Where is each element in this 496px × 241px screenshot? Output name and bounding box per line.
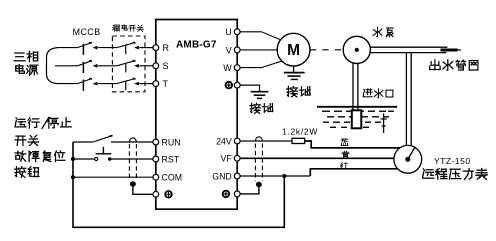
terminal RST	[153, 156, 159, 162]
wire phase R to terminal R	[139, 47, 152, 49]
wire V to motor	[240, 49, 277, 51]
MCCB pole 2 linkage dash	[82, 62, 84, 73]
terminal V	[234, 47, 240, 53]
wire RST right segment	[111, 158, 152, 160]
wire RUN left segment	[73, 141, 93, 143]
leakage pole 1 linkage dash	[125, 46, 127, 55]
foot valve	[352, 110, 362, 128]
label 接地 (motor ground)	[287, 87, 311, 97]
wire 24V to resistor	[240, 140, 292, 142]
wire label 蓝	[341, 138, 348, 145]
svg-text:M: M	[287, 42, 300, 59]
label 漏电开关 (leakage switch)	[113, 25, 144, 32]
wire phase S from source to MCCB	[55, 65, 78, 67]
svg-text:R: R	[163, 43, 170, 53]
svg-text:T: T	[163, 79, 169, 89]
svg-text:VF: VF	[221, 154, 233, 164]
wire label 红	[340, 162, 347, 168]
terminal W	[234, 65, 240, 71]
junction on bus at COM	[71, 175, 75, 179]
terminal PE top-right	[234, 82, 240, 88]
left shield wire	[133, 186, 153, 195]
wire W to motor	[240, 61, 282, 68]
svg-text:MCCB: MCCB	[73, 27, 101, 37]
leakage pole 2 linkage dash	[125, 64, 127, 73]
wire phase T MCCB to leakage switch	[98, 83, 117, 85]
terminal COM	[153, 174, 159, 180]
inverter PE wire	[240, 85, 259, 91]
outlet flow arrow	[441, 49, 458, 52]
wire phase T to terminal T	[139, 83, 152, 85]
leakage pole 3 linkage dash	[125, 82, 127, 91]
wire phase S to terminal S	[139, 65, 152, 67]
ground icon left	[165, 191, 172, 198]
wire RST left segment	[73, 158, 95, 160]
pool drain mark	[383, 114, 385, 134]
motor M	[277, 33, 310, 66]
terminal shield-right	[234, 191, 240, 197]
wire VF to gauge	[240, 157, 394, 159]
ground icon top-right	[226, 82, 233, 89]
terminal shield-left	[153, 191, 159, 197]
right shield wire	[240, 186, 259, 194]
wire GND to gauge	[310, 169, 397, 176]
terminal GND	[234, 173, 240, 179]
svg-text:S: S	[163, 61, 169, 71]
pump circle	[343, 36, 370, 63]
wire resistor to gauge	[305, 141, 400, 148]
svg-text:AMB-G7: AMB-G7	[176, 39, 217, 50]
svg-text:RST: RST	[162, 154, 180, 164]
MCCB pole 3 linkage dash	[82, 80, 84, 91]
terminal R	[153, 45, 159, 51]
motor ground wire	[293, 66, 295, 72]
label 进水口 (inlet)	[363, 89, 393, 98]
leakage switch pole 3	[117, 79, 134, 84]
label 开关	[15, 135, 39, 145]
inverter ground symbol	[251, 91, 269, 93]
svg-text:W: W	[223, 63, 232, 73]
reset pushbutton	[95, 157, 98, 160]
terminal T	[153, 81, 159, 87]
svg-text:COM: COM	[162, 173, 183, 183]
gauge riser pipe	[405, 53, 407, 146]
label 出水管网 (outlet network)	[430, 60, 478, 70]
wire phase S MCCB to leakage switch	[98, 65, 117, 67]
MCCB pole 1 linkage dash	[82, 44, 84, 55]
three-phase source bracket	[47, 48, 58, 84]
label 水泵 (pump)	[373, 28, 393, 37]
suction pipe	[352, 63, 354, 111]
terminal RUN	[153, 139, 159, 145]
junction on bus at RST	[71, 157, 75, 161]
resistor 1.2k/2W	[292, 138, 305, 143]
MCCB pole 1 (breaker contact)	[78, 43, 91, 48]
pressure gauge	[394, 145, 422, 173]
discharge pipe	[370, 46, 447, 48]
right shield capsule	[255, 137, 262, 142]
left shield capsule	[129, 138, 136, 143]
wire phase R MCCB to leakage switch	[98, 47, 117, 49]
terminal VF	[234, 155, 240, 161]
svg-text:U: U	[225, 27, 232, 37]
wire GND segment	[240, 175, 310, 177]
ground icon bottom-right	[223, 191, 230, 198]
wire RUN right segment	[111, 141, 153, 143]
control bus wire	[73, 142, 284, 227]
svg-text:V: V	[226, 45, 232, 55]
wire phase R from source to MCCB	[58, 47, 78, 49]
wire COM	[73, 176, 153, 178]
junction on GND wire	[282, 174, 286, 178]
svg-text:1.2k/2W: 1.2k/2W	[282, 126, 318, 136]
svg-text:GND: GND	[212, 171, 232, 181]
leakage switch pole 1	[117, 43, 134, 48]
terminal 24V	[234, 138, 240, 144]
wire U to motor	[240, 32, 280, 40]
wire phase T from source to MCCB	[58, 83, 78, 85]
wire label 黄	[342, 151, 349, 158]
motor ground symbol	[284, 72, 305, 74]
leakage switch pole 2	[117, 61, 134, 66]
water surface	[317, 106, 397, 108]
leakage switch dashed box	[112, 36, 145, 92]
terminal U	[234, 29, 240, 35]
svg-text:RUN: RUN	[162, 137, 181, 147]
svg-text:24V: 24V	[216, 136, 232, 146]
shaft coupling (dashed)	[310, 49, 343, 51]
label 三相电源 (three-phase supply)	[14, 51, 38, 62]
terminal S	[153, 63, 159, 69]
svg-text:YTZ-150: YTZ-150	[434, 156, 471, 166]
label 按钮	[15, 167, 39, 178]
water hatching	[322, 111, 394, 127]
MCCB pole 3 (breaker contact)	[78, 79, 91, 84]
label 故障复位	[15, 151, 65, 162]
MCCB pole 2 (breaker contact)	[78, 61, 91, 66]
run/stop switch blade	[93, 136, 111, 142]
label 远程压力表 (remote pressure gauge)	[423, 169, 488, 180]
label 接地 (inverter ground)	[250, 103, 273, 113]
label 运行/停止	[15, 118, 71, 129]
inverter box AMB-G7	[156, 20, 237, 210]
